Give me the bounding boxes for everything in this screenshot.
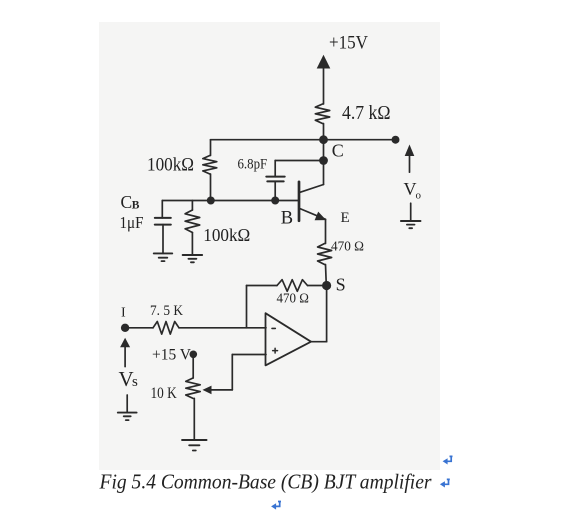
resistor R3 100k zigzag [185,210,200,233]
svg-text:1μF: 1μF [120,213,144,232]
wire feedback horizontal + resistor R5 470 [247,285,278,287]
ground under Vo [410,203,412,221]
junction base/C1 [271,197,279,205]
scan background [99,22,440,470]
transistor Q1 bar [298,182,301,221]
svg-text:s: s [132,374,138,390]
pilcrow return mark 3 [271,501,281,510]
svg-text:470 Ω: 470 Ω [277,291,309,306]
+15V terminal dot [190,351,198,359]
svg-text:7. 5 K: 7. 5 K [150,303,183,319]
svg-text:E: E [341,210,350,226]
wire base to CB [161,201,163,218]
ground under CB [162,225,164,254]
ground under pot [193,398,195,440]
wire cap tap vertical [274,161,276,177]
svg-text:Fig 5.4 Common-Base (CB) BJT a: Fig 5.4 Common-Base (CB) BJT amplifier [99,470,433,494]
svg-text:4.7 kΩ: 4.7 kΩ [342,102,391,124]
wire supply to R1 [323,68,325,105]
svg-text:470 Ω: 470 Ω [331,239,364,254]
wire C down to transistor [323,140,325,185]
wire top horizontal to R2 [210,140,212,156]
transistor collector lead [300,185,324,193]
svg-text:S: S [336,275,346,295]
resistor R1 4.7k zigzag [315,104,329,124]
+15V supply arrow [317,55,331,69]
resistor R4 470 zigzag [318,244,332,265]
wire input + resistor R6 7.5K [125,327,153,329]
svg-text:I: I [121,306,126,321]
svg-text:+15 V: +15 V [152,347,191,364]
junction cap tap [319,156,328,165]
wire base horizontal [162,200,298,202]
svg-text:10 K: 10 K [151,385,178,402]
op-amp U1 [266,313,312,365]
svg-text:100kΩ: 100kΩ [147,154,194,175]
wire R1 to node C [323,124,325,140]
op-amp minus sign [272,327,275,329]
svg-text:100kΩ: 100kΩ [203,225,250,245]
Vs arrow [120,338,130,348]
svg-text:+15V: +15V [329,33,368,54]
wire cap to base wire [274,182,276,201]
wiper arrowhead [203,386,212,395]
svg-text:C: C [332,140,344,160]
pilcrow return mark 2 [440,479,450,488]
ground under R3 [191,233,193,256]
op-amp plus sign [273,350,278,352]
Vo arrow [405,145,415,157]
svg-text:o: o [416,189,422,201]
potentiometer R7 10K zigzag [186,378,200,398]
svg-text:B: B [281,208,293,228]
output terminal dot [392,136,400,144]
wire feedback vertical [246,286,248,328]
svg-text:6.8pF: 6.8pF [238,157,268,173]
wire op-amp output [311,341,327,343]
capacitor C1 6.8pF [266,176,284,178]
wire plus input [232,354,266,356]
emitter arrowhead [315,212,327,221]
pilcrow return mark 1 [443,456,453,465]
ground under Vs [126,395,128,413]
capacitor CB plates [155,217,171,219]
junction node C [319,135,328,144]
wire base to R3 [191,201,193,211]
resistor R2 100k zigzag [203,156,217,175]
junction base/R2 [207,197,215,205]
svg-text:C: C [121,192,133,212]
wiper wire [205,389,232,391]
wire cap tap horizontal [275,160,323,162]
wire R4 to S [325,265,328,286]
junction node S [322,281,331,290]
input terminal dot [121,324,129,332]
transistor emitter lead [300,209,326,220]
wire +15 to pot [192,354,194,378]
svg-text:B: B [132,199,140,211]
wire node C horizontal [211,139,396,141]
wire emitter down [325,219,327,243]
